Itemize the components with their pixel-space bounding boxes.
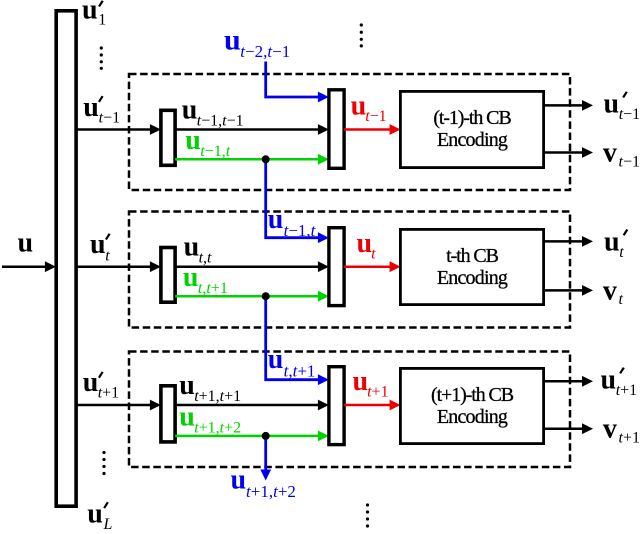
vertical dots bottom-middle — [366, 503, 369, 527]
svg-text:v: v — [603, 414, 617, 445]
svg-text:u: u — [83, 367, 99, 398]
vertical dots top-middle — [360, 23, 363, 47]
svg-text:v: v — [603, 275, 617, 306]
svg-text:(t-1)-th CB: (t-1)-th CB — [433, 107, 511, 129]
svg-text:t+1: t+1 — [98, 385, 119, 402]
wire u_(t+1,next) green — [175, 435, 320, 438]
svg-text:u: u — [184, 232, 200, 263]
combiner rectangle P1 — [329, 90, 344, 169]
svg-text:u: u — [185, 125, 201, 156]
junction node on green wire block 2 — [262, 292, 270, 300]
svg-text:u: u — [179, 402, 195, 433]
svg-text:t: t — [619, 291, 624, 308]
svg-text:Encoding: Encoding — [437, 267, 508, 289]
red wire u_t-1 combiner to CB encoder — [344, 128, 392, 131]
svg-text:u: u — [179, 370, 195, 401]
vertical dots top-left — [100, 46, 103, 70]
dashed box for (t)-th encoder stage — [129, 212, 570, 328]
(t+1)-th CB Encoding box U3 — [400, 368, 543, 443]
vertical dots bottom-left — [102, 451, 105, 475]
svg-text:u: u — [182, 95, 198, 126]
svg-text:t−2,t−1: t−2,t−1 — [240, 42, 290, 61]
svg-text:u: u — [353, 366, 369, 397]
svg-text:t: t — [105, 248, 110, 265]
splitter rectangle S2 — [161, 248, 175, 303]
svg-text:Encoding: Encoding — [437, 129, 508, 151]
svg-text:u: u — [231, 465, 247, 496]
dashed box for (t+1)-th encoder stage — [129, 352, 570, 468]
svg-text:t−1,t−1: t−1,t−1 — [197, 113, 244, 130]
svg-text:u: u — [601, 365, 617, 396]
svg-text:t−1,t: t−1,t — [200, 143, 230, 160]
svg-text:t,t+1: t,t+1 — [284, 361, 316, 380]
blue wire from junction of block 2 down into combiner P3 — [266, 296, 320, 380]
output wire u'_t-1 — [544, 104, 584, 107]
output wire u'_t — [544, 240, 584, 243]
svg-text:u: u — [183, 262, 199, 293]
svg-text:u: u — [351, 91, 367, 122]
red wire u_t combiner to CB encoder — [344, 265, 392, 268]
output wire v_t — [544, 289, 584, 292]
svg-text:t−1: t−1 — [619, 106, 640, 123]
combiner rectangle P3 — [329, 367, 344, 445]
svg-text:t+1,t+1: t+1,t+1 — [194, 388, 241, 405]
svg-text:t+1,t+2: t+1,t+2 — [246, 482, 296, 501]
svg-text:v: v — [603, 138, 617, 169]
svg-text:t-th CB: t-th CB — [446, 245, 499, 267]
svg-text:u: u — [83, 92, 99, 123]
svg-text:t+1,t+2: t+1,t+2 — [194, 420, 241, 437]
svg-text:t−1: t−1 — [619, 153, 640, 170]
svg-text:u: u — [357, 228, 373, 259]
svg-text:u: u — [268, 344, 284, 375]
splitter rectangle S3 — [161, 386, 175, 442]
svg-text:t: t — [371, 245, 376, 262]
svg-text:Encoding: Encoding — [437, 406, 508, 428]
blue wire from junction of block 1 down into combiner P2 — [266, 159, 320, 237]
demultiplexer block (tall rectangle) — [56, 11, 76, 506]
svg-text:u: u — [87, 498, 103, 529]
svg-text:u: u — [604, 89, 620, 120]
svg-text:t: t — [619, 244, 624, 261]
combiner rectangle P2 — [329, 228, 344, 306]
wire u'_t+1 from demux to splitter — [77, 404, 152, 407]
wire u_(t,t) black — [175, 265, 320, 268]
svg-text:u: u — [224, 23, 241, 56]
red wire u_t+1 combiner to CB encoder — [344, 404, 392, 407]
wire u_(t-1,t-1) black — [175, 128, 320, 131]
output wire v_t+1 — [544, 427, 584, 430]
wire u_(t,next) green — [175, 295, 320, 298]
blue wire u_t+1,t+2 going down out of block 3 — [264, 436, 267, 471]
svg-text:t+1: t+1 — [616, 382, 637, 399]
wire u'_t from demux to splitter — [77, 265, 152, 268]
svg-text:u: u — [268, 204, 284, 235]
svg-text:t−1: t−1 — [99, 110, 120, 127]
svg-text:(t+1)-th CB: (t+1)-th CB — [431, 384, 514, 406]
(t-1)-th CB Encoding box U1 — [400, 91, 543, 167]
svg-text:t−1: t−1 — [365, 108, 386, 125]
wire u_(t+1,t+1) black — [175, 404, 320, 407]
svg-text:u: u — [18, 228, 34, 259]
wire u_(t-1,next) green — [175, 158, 320, 161]
svg-text:t,t: t,t — [199, 250, 212, 267]
output wire u'_t+1 — [544, 380, 584, 383]
junction node on green wire block 1 — [262, 155, 270, 163]
splitter rectangle S1 — [161, 110, 175, 165]
(t)-th CB Encoding box U2 — [400, 229, 543, 304]
svg-text:t+1: t+1 — [619, 430, 640, 447]
svg-text:u: u — [604, 226, 620, 257]
svg-text:u: u — [90, 229, 106, 260]
svg-text:1: 1 — [98, 12, 106, 29]
svg-text:t−1,t: t−1,t — [284, 221, 317, 240]
svg-text:u: u — [82, 0, 98, 25]
output wire v_t-1 — [544, 151, 584, 154]
dashed box for (t-1)-th encoder stage — [129, 74, 570, 190]
svg-text:L: L — [103, 516, 113, 529]
input arrow for u — [2, 265, 46, 268]
junction node on green wire block 3 — [262, 432, 270, 440]
wire u'_t-1 from demux to splitter — [77, 128, 152, 131]
blue wire u_t-2,t-1 from above into combiner P1 — [266, 62, 320, 98]
svg-text:t+1: t+1 — [367, 384, 388, 401]
svg-text:t,t+1: t,t+1 — [198, 280, 228, 297]
